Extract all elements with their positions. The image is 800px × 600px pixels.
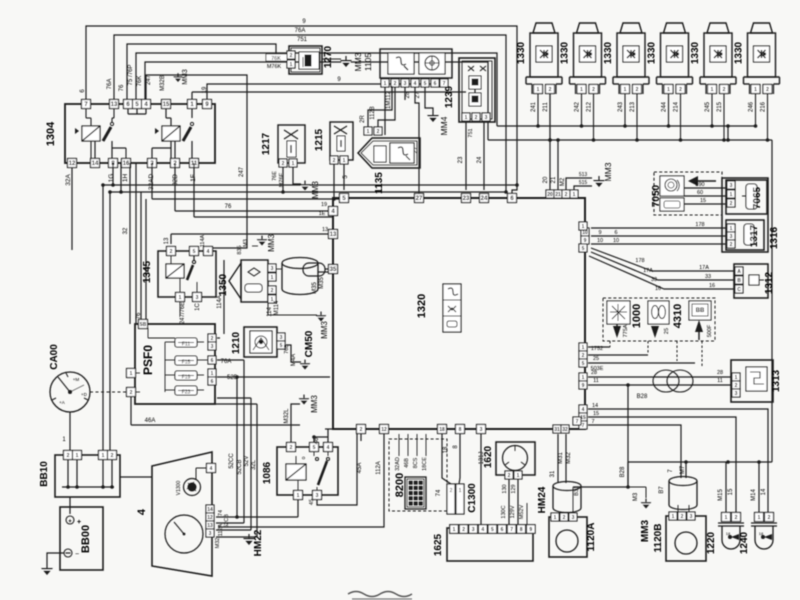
svg-text:247: 247 (239, 166, 245, 177)
7050 arrow (688, 176, 698, 186)
svg-text:1330: 1330 (647, 41, 658, 64)
wire 1086 pin1 down (297, 499, 299, 517)
wire 1215 to pin5 (333, 164, 335, 199)
PSF0 pin 5B (139, 320, 148, 329)
control unit 1105 (380, 49, 452, 78)
scan artifact bottom (348, 592, 412, 597)
wire 45A (317, 434, 357, 505)
wire bus y199 (151, 163, 153, 199)
svg-text:MM3: MM3 (640, 519, 651, 542)
svg-text:8CS: 8CS (413, 457, 419, 468)
svg-text:F11: F11 (182, 342, 190, 348)
warning light V1300 (184, 479, 201, 496)
svg-text:1317: 1317 (749, 224, 760, 247)
svg-text:1: 1 (343, 158, 346, 164)
1345 inner wires (170, 256, 172, 264)
svg-text:MM4: MM4 (439, 116, 449, 135)
svg-text:1220: 1220 (706, 531, 717, 554)
svg-text:2: 2 (730, 201, 733, 207)
svg-text:1: 1 (130, 371, 133, 377)
8200 connector grid (405, 477, 426, 509)
connector M35 capsule (303, 263, 325, 276)
svg-text:M32: M32 (566, 452, 572, 464)
svg-text:5B: 5B (140, 322, 147, 328)
svg-text:2: 2 (549, 87, 552, 93)
wire BB10 to battery (69, 497, 71, 514)
svg-text:3: 3 (690, 514, 693, 520)
svg-text:1312: 1312 (764, 271, 775, 294)
svg-text:2: 2 (67, 453, 70, 459)
ignition switch CA00 (50, 372, 90, 412)
svg-text:1: 1 (758, 515, 761, 521)
svg-text:835: 835 (237, 245, 243, 254)
svg-text:PSF0: PSF0 (141, 345, 155, 375)
svg-text:18: 18 (759, 531, 764, 536)
svg-text:6: 6 (211, 379, 214, 385)
1210 pins (277, 333, 285, 341)
1320 top pins (340, 194, 349, 203)
svg-text:13: 13 (111, 102, 118, 108)
svg-text:33: 33 (651, 277, 657, 283)
svg-text:BB10: BB10 (39, 461, 50, 487)
lamp 1330 #3 (620, 23, 642, 33)
wire 28 to 1313 (588, 376, 731, 378)
svg-text:M32: M32 (215, 538, 221, 549)
svg-text:46: 46 (314, 437, 320, 444)
svg-text:BB00: BB00 (80, 525, 92, 553)
wires 31 32 down (557, 434, 559, 483)
svg-text:A: A (737, 269, 741, 275)
svg-text:1: 1 (582, 224, 585, 230)
svg-text:515: 515 (579, 180, 588, 186)
wire CA00 down (69, 412, 71, 450)
svg-text:1120B: 1120B (653, 524, 664, 553)
wire 525 to right (217, 376, 330, 378)
lamp 1330 #2 (577, 23, 599, 33)
7050 icons (660, 176, 684, 196)
wire 7 run (588, 425, 681, 478)
svg-text:1620: 1620 (483, 445, 494, 468)
svg-text:7: 7 (591, 419, 594, 425)
svg-text:F23: F23 (182, 390, 191, 396)
wire 1105 pin to 27 pin of 1320 (415, 87, 419, 194)
motor unit 1120A (549, 517, 587, 557)
svg-text:15: 15 (700, 198, 706, 204)
svg-text:1: 1 (672, 514, 675, 520)
ground MM3 top right of 1320 (598, 176, 600, 180)
svg-text:31: 31 (550, 470, 556, 477)
svg-text:MM3: MM3 (182, 69, 189, 85)
lamp 1 pins (534, 85, 543, 94)
svg-text:21: 21 (555, 192, 561, 198)
svg-text:52CB: 52CB (237, 459, 243, 474)
wire to MM4 (425, 87, 433, 111)
verticals 1304 to PSF0 (135, 163, 137, 324)
svg-text:1: 1 (725, 515, 728, 521)
svg-text:1M112: 1M112 (386, 90, 392, 109)
wire 247 vertical (146, 75, 247, 248)
wire to lamp bus 1 (136, 53, 497, 126)
svg-text:5: 5 (193, 249, 196, 255)
lamp 1330 #1 (533, 23, 555, 33)
lamp 6 pins (751, 85, 760, 94)
connector strip 1625 (447, 528, 533, 561)
svg-text:216: 216 (761, 101, 767, 112)
1320 right pin cluster mid (579, 343, 587, 351)
1620 pins (505, 471, 513, 479)
svg-text:114A: 114A (217, 295, 223, 309)
svg-text:M31: M31 (558, 452, 564, 464)
svg-text:B28: B28 (637, 394, 648, 400)
ground MM4 (432, 111, 434, 115)
bulb 1220 (722, 513, 731, 522)
ground MM3 below 1217 (304, 181, 306, 185)
relay 1086 (277, 447, 338, 495)
svg-text:27: 27 (415, 91, 421, 98)
twisted pair sleeve (653, 370, 679, 392)
starter body cylinder (282, 258, 318, 269)
wire M-side drops (685, 462, 687, 478)
ground MM3 below 1350 (268, 299, 317, 315)
svg-text:28: 28 (405, 91, 411, 98)
svg-text:213: 213 (630, 101, 636, 112)
svg-text:1: 1 (271, 275, 274, 281)
svg-text:1: 1 (624, 87, 627, 93)
svg-text:8: 8 (459, 427, 462, 433)
svg-text:52V: 52V (244, 456, 250, 467)
svg-text:M32L: M32L (284, 408, 290, 424)
lamp 2 wires (581, 94, 583, 126)
1320 icon column (443, 284, 461, 332)
battery minus wire (47, 553, 64, 564)
icon OO (648, 301, 669, 324)
svg-text:7: 7 (582, 423, 585, 429)
svg-text:32A: 32A (65, 174, 72, 186)
PSF0 inner wires (147, 328, 149, 338)
svg-text:2: 2 (211, 336, 214, 342)
svg-text:1210: 1210 (231, 331, 242, 354)
svg-text:2: 2 (681, 514, 684, 520)
wire 46 (314, 437, 328, 443)
lamp 1 wires (537, 94, 539, 126)
svg-text:2: 2 (475, 115, 478, 121)
svg-text:2: 2 (111, 453, 114, 459)
svg-text:1: 1 (465, 115, 468, 121)
arrow up (695, 320, 703, 332)
svg-text:1135: 1135 (374, 172, 385, 194)
svg-text:9: 9 (598, 230, 601, 236)
svg-text:23: 23 (463, 196, 470, 202)
svg-text:247/76E: 247/76E (180, 302, 186, 324)
svg-text:M52V: M52V (519, 504, 525, 519)
svg-text:4: 4 (136, 508, 148, 515)
svg-text:F19: F19 (182, 375, 191, 381)
bus1 to bus2 link (727, 126, 729, 140)
fuse F11 (175, 338, 197, 347)
1239 icon (468, 66, 486, 71)
svg-text:3: 3 (271, 266, 274, 272)
svg-text:2: 2 (679, 87, 682, 93)
svg-text:1G: 1G (108, 174, 115, 183)
svg-text:1: 1 (102, 453, 105, 459)
wire 76A right (217, 359, 244, 361)
svg-text:F15: F15 (182, 360, 191, 366)
sensor 1620 (496, 442, 535, 475)
wire 11 to 1313 (588, 384, 731, 386)
1135 pins (364, 127, 372, 135)
svg-text:MM3: MM3 (267, 234, 276, 252)
wire 1210 to ground (286, 345, 301, 362)
svg-text:5: 5 (313, 445, 316, 451)
svg-text:1240: 1240 (739, 531, 750, 554)
svg-text:1: 1 (292, 161, 295, 167)
wire 15 run (588, 417, 736, 513)
junction unit BB10 (55, 455, 120, 497)
svg-text:28: 28 (717, 370, 723, 376)
svg-text:HM22: HM22 (253, 529, 264, 556)
verticals into 8200 (398, 434, 400, 456)
svg-text:31: 31 (554, 427, 560, 433)
relay unit 1304 outline (65, 104, 215, 163)
svg-text:60: 60 (697, 190, 703, 196)
svg-text:7: 7 (510, 527, 513, 533)
svg-text:28: 28 (591, 370, 597, 376)
svg-text:8: 8 (520, 527, 523, 533)
svg-text:M14: M14 (751, 489, 757, 501)
svg-text:2: 2 (360, 427, 363, 433)
svg-text:5: 5 (491, 527, 494, 533)
svg-text:890: 890 (695, 182, 704, 188)
svg-text:1: 1 (179, 295, 182, 301)
1345 contact (192, 260, 195, 263)
vertical to BB10 b (109, 192, 111, 450)
svg-text:6: 6 (501, 527, 504, 533)
svg-text:1625: 1625 (433, 533, 444, 556)
svg-text:4: 4 (414, 81, 417, 87)
svg-text:9: 9 (529, 527, 532, 533)
svg-text:76: 76 (225, 204, 232, 210)
svg-text:MM3: MM3 (353, 52, 363, 71)
svg-text:7065: 7065 (752, 186, 763, 209)
svg-text:MM3: MM3 (603, 162, 613, 181)
svg-text:+M: +M (73, 377, 80, 382)
svg-text:19: 19 (321, 202, 327, 208)
unit 1312 (734, 264, 768, 298)
svg-text:14: 14 (92, 161, 99, 167)
wire B28 down (627, 385, 629, 487)
svg-text:4: 4 (210, 466, 213, 472)
pump cylinder 1120B (669, 477, 697, 486)
wires to 1312 with diagonals (591, 248, 734, 271)
svg-text:45A: 45A (357, 463, 363, 474)
svg-text:13: 13 (322, 227, 328, 233)
svg-text:16: 16 (123, 161, 130, 167)
wire bus y192 (120, 163, 122, 192)
svg-text:3: 3 (196, 295, 199, 301)
svg-text:4: 4 (207, 249, 210, 255)
bracket 1316 (722, 178, 768, 252)
svg-text:9: 9 (582, 383, 585, 389)
svg-text:−: − (75, 551, 79, 558)
svg-text:M2: M2 (560, 177, 566, 186)
svg-text:46B: 46B (404, 458, 410, 468)
svg-text:3: 3 (730, 183, 733, 189)
svg-text:751: 751 (468, 128, 474, 137)
fuse F23 (175, 386, 197, 395)
svg-text:CA00: CA00 (49, 344, 60, 370)
dashed box 8200 (389, 439, 447, 511)
svg-text:76K: 76K (271, 56, 281, 62)
svg-text:32L: 32L (251, 459, 257, 470)
svg-text:M3: M3 (243, 239, 249, 247)
1320 right pin cluster low (579, 373, 587, 381)
svg-text:+: + (68, 519, 72, 525)
svg-text:751: 751 (297, 37, 308, 43)
svg-text:23: 23 (458, 156, 464, 163)
svg-text:o: o (301, 456, 307, 459)
arrow marks in 1304 (75, 128, 79, 134)
svg-text:244: 244 (662, 101, 668, 112)
svg-text:C1300: C1300 (467, 483, 478, 513)
lamp 1330 #4 (664, 23, 686, 33)
1304 top pins (82, 100, 91, 109)
svg-text:3: 3 (735, 391, 738, 397)
svg-text:1: 1 (517, 473, 520, 479)
svg-text:10: 10 (582, 230, 588, 236)
fuse holder 1270 (289, 46, 322, 74)
svg-text:1320: 1320 (416, 294, 428, 318)
svg-text:CM50: CM50 (304, 330, 315, 357)
svg-text:7050: 7050 (651, 184, 662, 207)
svg-text:2: 2 (592, 87, 595, 93)
svg-text:2: 2 (170, 249, 173, 255)
svg-text:114A: 114A (200, 234, 206, 247)
svg-text:20: 20 (543, 176, 549, 183)
svg-text:10: 10 (597, 238, 603, 244)
wire BB10 to unit4 (120, 476, 152, 478)
svg-text:46A: 46A (145, 418, 156, 424)
svg-text:214: 214 (674, 101, 680, 112)
svg-text:5: 5 (582, 361, 585, 367)
svg-text:13: 13 (164, 237, 170, 244)
svg-text:52CB: 52CB (224, 514, 230, 528)
svg-text:1330: 1330 (690, 41, 701, 64)
1350 pins (268, 264, 276, 272)
svg-text:27: 27 (416, 196, 423, 202)
wire 46A (130, 397, 132, 425)
1304 internal wiring (85, 109, 87, 118)
svg-text:211: 211 (543, 102, 549, 112)
svg-text:B: B (737, 278, 741, 284)
wire 9 top run (86, 26, 517, 185)
svg-text:+D: +D (81, 392, 88, 397)
svg-text:3: 3 (472, 527, 475, 533)
svg-text:M114: M114 (274, 300, 280, 315)
icon snow (607, 301, 630, 324)
ground MM3 at 835 (261, 236, 263, 240)
svg-text:MM3: MM3 (310, 395, 319, 413)
svg-text:14: 14 (761, 488, 767, 495)
svg-text:24: 24 (477, 156, 483, 163)
wire 2 bottom (360, 434, 362, 441)
verticals 52CC 52CB 52V 32L (236, 377, 238, 517)
fuse F15 (175, 356, 197, 365)
battery BB00 (60, 507, 103, 570)
wire 1086 pin4 up (327, 429, 329, 443)
fuse box PSF0 (135, 324, 215, 404)
svg-text:1120A: 1120A (586, 523, 597, 552)
svg-text:1: 1 (211, 371, 214, 377)
svg-text:1304: 1304 (45, 121, 57, 146)
svg-text:14: 14 (207, 507, 213, 513)
speaker unit 7065 (726, 180, 767, 214)
svg-text:6: 6 (211, 358, 214, 364)
svg-text:32: 32 (562, 427, 568, 433)
wires M2 M3 of 1320 to ground (566, 178, 592, 190)
lamp 4 wires (668, 94, 670, 126)
wire to lamp bus 2 (145, 62, 488, 140)
svg-text:2: 2 (735, 515, 738, 521)
PSF0 bottom stubs (217, 397, 251, 399)
svg-text:C: C (737, 287, 741, 293)
unit 1239 outer (459, 58, 495, 122)
wire 1217 pins down (282, 167, 284, 192)
right drop from bus2 to 1240 bus (771, 140, 773, 462)
1086 coil (286, 464, 306, 480)
svg-text:2: 2 (768, 515, 771, 521)
wire M35 to 1320 (318, 271, 328, 273)
svg-text:9: 9 (584, 238, 587, 244)
ground MM3 1105 (322, 58, 341, 60)
svg-text:1239: 1239 (444, 85, 455, 108)
svg-text:1: 1 (582, 345, 585, 351)
lamp 1330 #6 (751, 23, 773, 33)
svg-text:1: 1 (754, 87, 757, 93)
svg-text:M76K: M76K (267, 64, 282, 70)
svg-text:1: 1 (667, 87, 670, 93)
wire from pin 12 of 1304 (71, 167, 73, 250)
wire B31 (572, 487, 574, 513)
svg-text:8200: 8200 (394, 473, 406, 497)
svg-text:18: 18 (443, 446, 449, 453)
svg-text:2: 2 (723, 87, 726, 93)
svg-text:21: 21 (551, 176, 557, 183)
svg-text:11: 11 (717, 378, 723, 384)
svg-text:178: 178 (695, 222, 704, 228)
svg-text:1H: 1H (122, 174, 129, 183)
svg-text:15: 15 (728, 488, 734, 495)
svg-text:3: 3 (480, 427, 483, 433)
svg-text:129: 129 (511, 484, 517, 493)
svg-text:M4A: M4A (291, 354, 297, 366)
svg-text:1: 1 (580, 87, 583, 93)
svg-text:6: 6 (434, 81, 437, 87)
svg-text:M3: M3 (633, 492, 639, 501)
svg-text:1: 1 (582, 375, 585, 381)
svg-text:2R: 2R (360, 114, 366, 122)
lamp bus 1 (497, 125, 756, 127)
svg-text:1330: 1330 (734, 41, 745, 64)
svg-text:130: 130 (502, 484, 508, 493)
svg-text:6: 6 (614, 230, 617, 236)
lamp 4 pins (664, 85, 673, 94)
dashed link CA00 to PSF0 (90, 391, 127, 393)
dashed drops from option box (609, 341, 611, 347)
svg-text:129V: 129V (510, 505, 516, 518)
relay K1 coil in 1304 (82, 126, 100, 141)
svg-text:2: 2 (282, 161, 285, 167)
wire bus 13 y234 (170, 234, 172, 244)
